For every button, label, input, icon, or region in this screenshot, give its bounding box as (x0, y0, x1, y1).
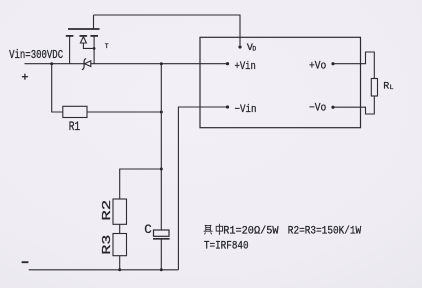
svg-text:R3: R3 (101, 234, 114, 254)
wire Vin+ rail left segment (25, 63, 85, 65)
wire R2-R3 link (119, 224, 121, 233)
transistor T (IRF840 MOSFET) (66, 15, 100, 64)
svg-text:Vin=300VDC: Vin=300VDC (9, 49, 63, 62)
svg-text:−Vin: −Vin (235, 104, 257, 116)
wire RL to -Vo (333, 96, 374, 114)
wire bottom rail (29, 269, 179, 271)
terminal + (Vin positive) (22, 74, 28, 80)
wire R1 left lead (52, 64, 63, 112)
svg-text:R1: R1 (69, 120, 81, 134)
junction node at R1 tap (50, 62, 53, 65)
svg-text:T: T (105, 43, 109, 50)
svg-text:L: L (390, 84, 394, 91)
resistor R2 (113, 199, 127, 224)
junction node R3 x bottom rail (118, 268, 121, 271)
svg-text:R2: R2 (101, 200, 114, 221)
wire Vin+ rail right segment to +Vin (91, 63, 228, 65)
wire R3 bottom lead (119, 256, 121, 270)
svg-text:C: C (144, 223, 152, 237)
svg-text:+Vin: +Vin (235, 61, 256, 73)
pin VD (238, 45, 241, 48)
wire line A upper (rail to cap) (160, 64, 162, 230)
pin -Vin (226, 105, 229, 108)
svg-text:+Vo: +Vo (309, 60, 326, 72)
svg-text:−Vo: −Vo (309, 103, 326, 115)
pin +Vin (226, 62, 229, 65)
wire R1 right lead (87, 111, 161, 113)
wire -Vin branch (178, 107, 227, 270)
wire R2 top lead (120, 169, 162, 199)
junction node rail / line A (160, 62, 163, 65)
zener diode D1 (82, 59, 91, 70)
svg-text:T=IRF840: T=IRF840 (204, 240, 249, 252)
wire gate to VD pin (94, 15, 241, 45)
pin -Vo (331, 106, 334, 109)
label VD (247, 43, 257, 54)
svg-text:R: R (383, 82, 389, 93)
svg-text:D: D (252, 46, 256, 53)
resistor RL (371, 79, 377, 97)
note line 1: 其中 (hanzi) (204, 224, 223, 235)
converter module U1 (200, 37, 361, 127)
capacitor C (153, 230, 170, 239)
junction node line A x R1 (160, 111, 163, 114)
terminal - (Vin negative) (22, 261, 29, 263)
junction node cap x bottom rail (160, 268, 163, 271)
wire cap bottom lead (160, 239, 162, 270)
resistor R1 (63, 106, 87, 117)
svg-text:R1=20Ω/5W: R1=20Ω/5W (223, 226, 279, 238)
wire +Vo to RL (333, 52, 374, 79)
label RL (383, 82, 393, 93)
junction node line A x R2 wire (160, 168, 163, 171)
resistor R3 (113, 234, 127, 256)
svg-text:R2=R3=150K/1W: R2=R3=150K/1W (288, 226, 362, 238)
pin +Vo (331, 62, 334, 65)
